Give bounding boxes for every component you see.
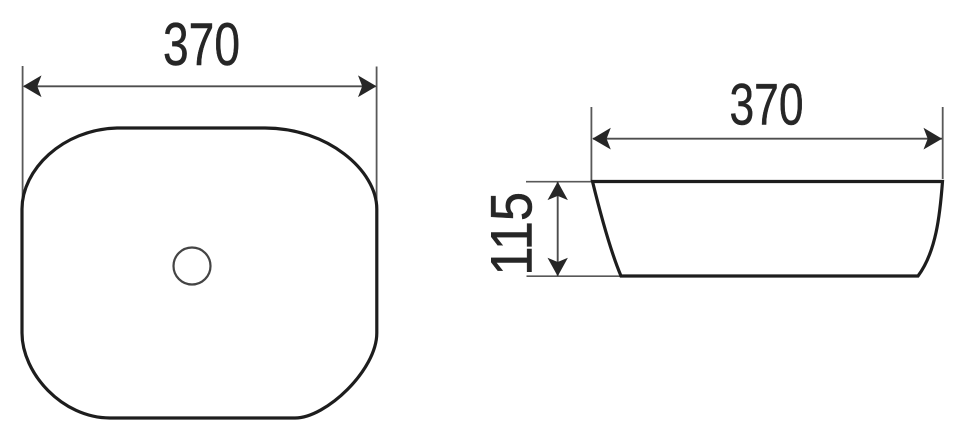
basin profile (side view) <box>593 182 943 277</box>
extension line right (side view) <box>942 107 944 179</box>
arrowhead right (top view 370) <box>358 75 377 97</box>
extension line left (top view) <box>22 66 24 204</box>
extension line left (side view) <box>590 107 592 180</box>
arrowhead left (side view 370) <box>592 128 611 150</box>
drain circle (top view) <box>174 248 211 285</box>
dimension line 115 (side view) <box>557 183 559 276</box>
svg-text:370: 370 <box>163 11 240 78</box>
arrowhead up (side view 115) <box>548 182 568 201</box>
svg-text:115: 115 <box>480 192 545 276</box>
arrowhead right (side view 370) <box>924 128 943 150</box>
extension line right (top view) <box>376 67 378 204</box>
svg-text:370: 370 <box>730 73 804 138</box>
extension line top (side view 115) <box>526 181 592 183</box>
dimension line 370 (side view) <box>593 138 942 140</box>
arrowhead down (side view 115) <box>548 258 568 277</box>
dimension line 370 (top view) <box>24 85 376 87</box>
basin outline (top view) <box>22 128 377 418</box>
extension line bottom (side view 115) <box>527 275 622 277</box>
arrowhead left (top view 370) <box>23 75 42 97</box>
